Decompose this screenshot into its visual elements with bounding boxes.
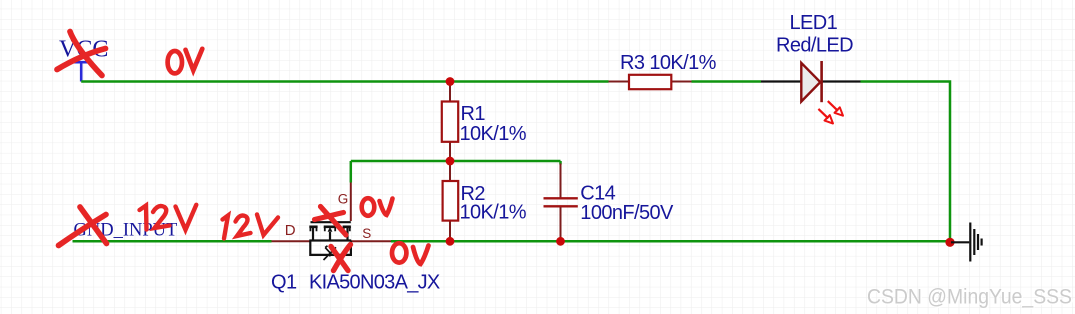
wire top rail	[81, 80, 608, 83]
junction node R2 / source row	[446, 237, 455, 246]
svg-text:10K/1%: 10K/1%	[460, 201, 527, 223]
annotation red X over gate	[315, 207, 347, 236]
svg-text:LED1: LED1	[790, 12, 838, 34]
annotation 0v at source	[392, 243, 429, 264]
resistor R1	[442, 83, 527, 161]
wire LED to right corner and down	[861, 82, 951, 243]
svg-text:Red/LED: Red/LED	[776, 34, 853, 56]
junction node top rail / R1	[446, 77, 455, 86]
svg-text:KIA50N03A_JX: KIA50N03A_JX	[309, 272, 440, 294]
annotation 12V second	[223, 215, 279, 239]
svg-text:CSDN @MingYue_SSS: CSDN @MingYue_SSS	[867, 286, 1072, 309]
wire source row to ground	[391, 240, 951, 243]
svg-text:10K/1%: 10K/1%	[460, 123, 527, 145]
junction node R1 / R2	[446, 157, 455, 166]
capacitor C14	[544, 164, 675, 242]
wire R3 to LED	[692, 80, 762, 83]
svg-text:G: G	[338, 192, 349, 207]
annotation red X over VCC	[57, 32, 106, 76]
svg-text:D: D	[285, 222, 296, 239]
svg-text:S: S	[362, 226, 371, 241]
svg-text:100nF/50V: 100nF/50V	[580, 202, 674, 224]
power port VCC	[74, 62, 90, 81]
resistor R3	[609, 52, 717, 89]
annotation 0v near gate	[362, 198, 393, 216]
svg-text:R3 10K/1%: R3 10K/1%	[620, 52, 717, 74]
annotation red X over GND_INPUT	[59, 207, 107, 246]
wire GND_INPUT row	[73, 240, 272, 243]
annotation red X over body diode	[331, 245, 351, 271]
junction node ground corner	[945, 238, 954, 247]
wire gate branch horizontal	[351, 160, 561, 163]
transistor Q1	[271, 183, 440, 294]
resistor R2	[443, 161, 527, 241]
annotation 0V top	[168, 49, 203, 74]
annotation 12V first	[140, 205, 197, 230]
svg-text:Q1: Q1	[271, 272, 297, 294]
LED LED1	[761, 12, 861, 124]
wire gate branch vertical	[350, 161, 353, 183]
ground symbol	[951, 223, 982, 262]
junction node C14 / source row	[556, 237, 565, 246]
svg-text:R1: R1	[461, 103, 486, 125]
wire C14 top stub	[559, 161, 562, 165]
